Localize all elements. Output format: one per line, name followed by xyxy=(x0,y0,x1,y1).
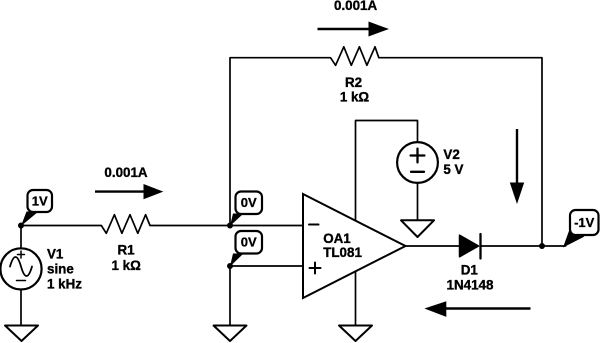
svg-text:1V: 1V xyxy=(32,194,48,209)
svg-text:1 kΩ: 1 kΩ xyxy=(112,258,142,273)
svg-text:0V: 0V xyxy=(241,195,257,210)
svg-text:0.001A: 0.001A xyxy=(334,0,378,13)
svg-text:V2: V2 xyxy=(443,147,459,162)
svg-text:0V: 0V xyxy=(241,235,257,250)
svg-text:-1V: -1V xyxy=(574,215,595,230)
svg-text:1N4148: 1N4148 xyxy=(447,278,494,293)
svg-text:R2: R2 xyxy=(345,75,362,90)
svg-text:OA1: OA1 xyxy=(323,231,351,246)
svg-text:sine: sine xyxy=(47,262,74,277)
svg-text:R1: R1 xyxy=(117,243,135,258)
svg-text:V1: V1 xyxy=(47,247,64,262)
svg-text:D1: D1 xyxy=(461,263,479,278)
svg-text:0.001A: 0.001A xyxy=(104,165,148,180)
svg-text:TL081: TL081 xyxy=(323,245,362,260)
svg-text:1 kΩ: 1 kΩ xyxy=(340,90,370,105)
svg-text:1 kHz: 1 kHz xyxy=(47,277,82,292)
svg-text:5 V: 5 V xyxy=(443,162,463,177)
